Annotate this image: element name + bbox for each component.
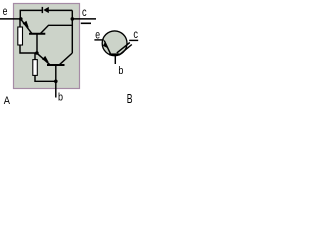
- svg-text:B: B: [127, 92, 133, 106]
- svg-text:A: A: [4, 95, 11, 107]
- svg-text:c: c: [133, 27, 138, 41]
- svg-text:e: e: [3, 4, 8, 18]
- svg-text:b: b: [118, 65, 123, 77]
- svg-text:b: b: [58, 91, 63, 103]
- svg-text:e: e: [95, 27, 100, 41]
- svg-text:c: c: [82, 5, 87, 19]
